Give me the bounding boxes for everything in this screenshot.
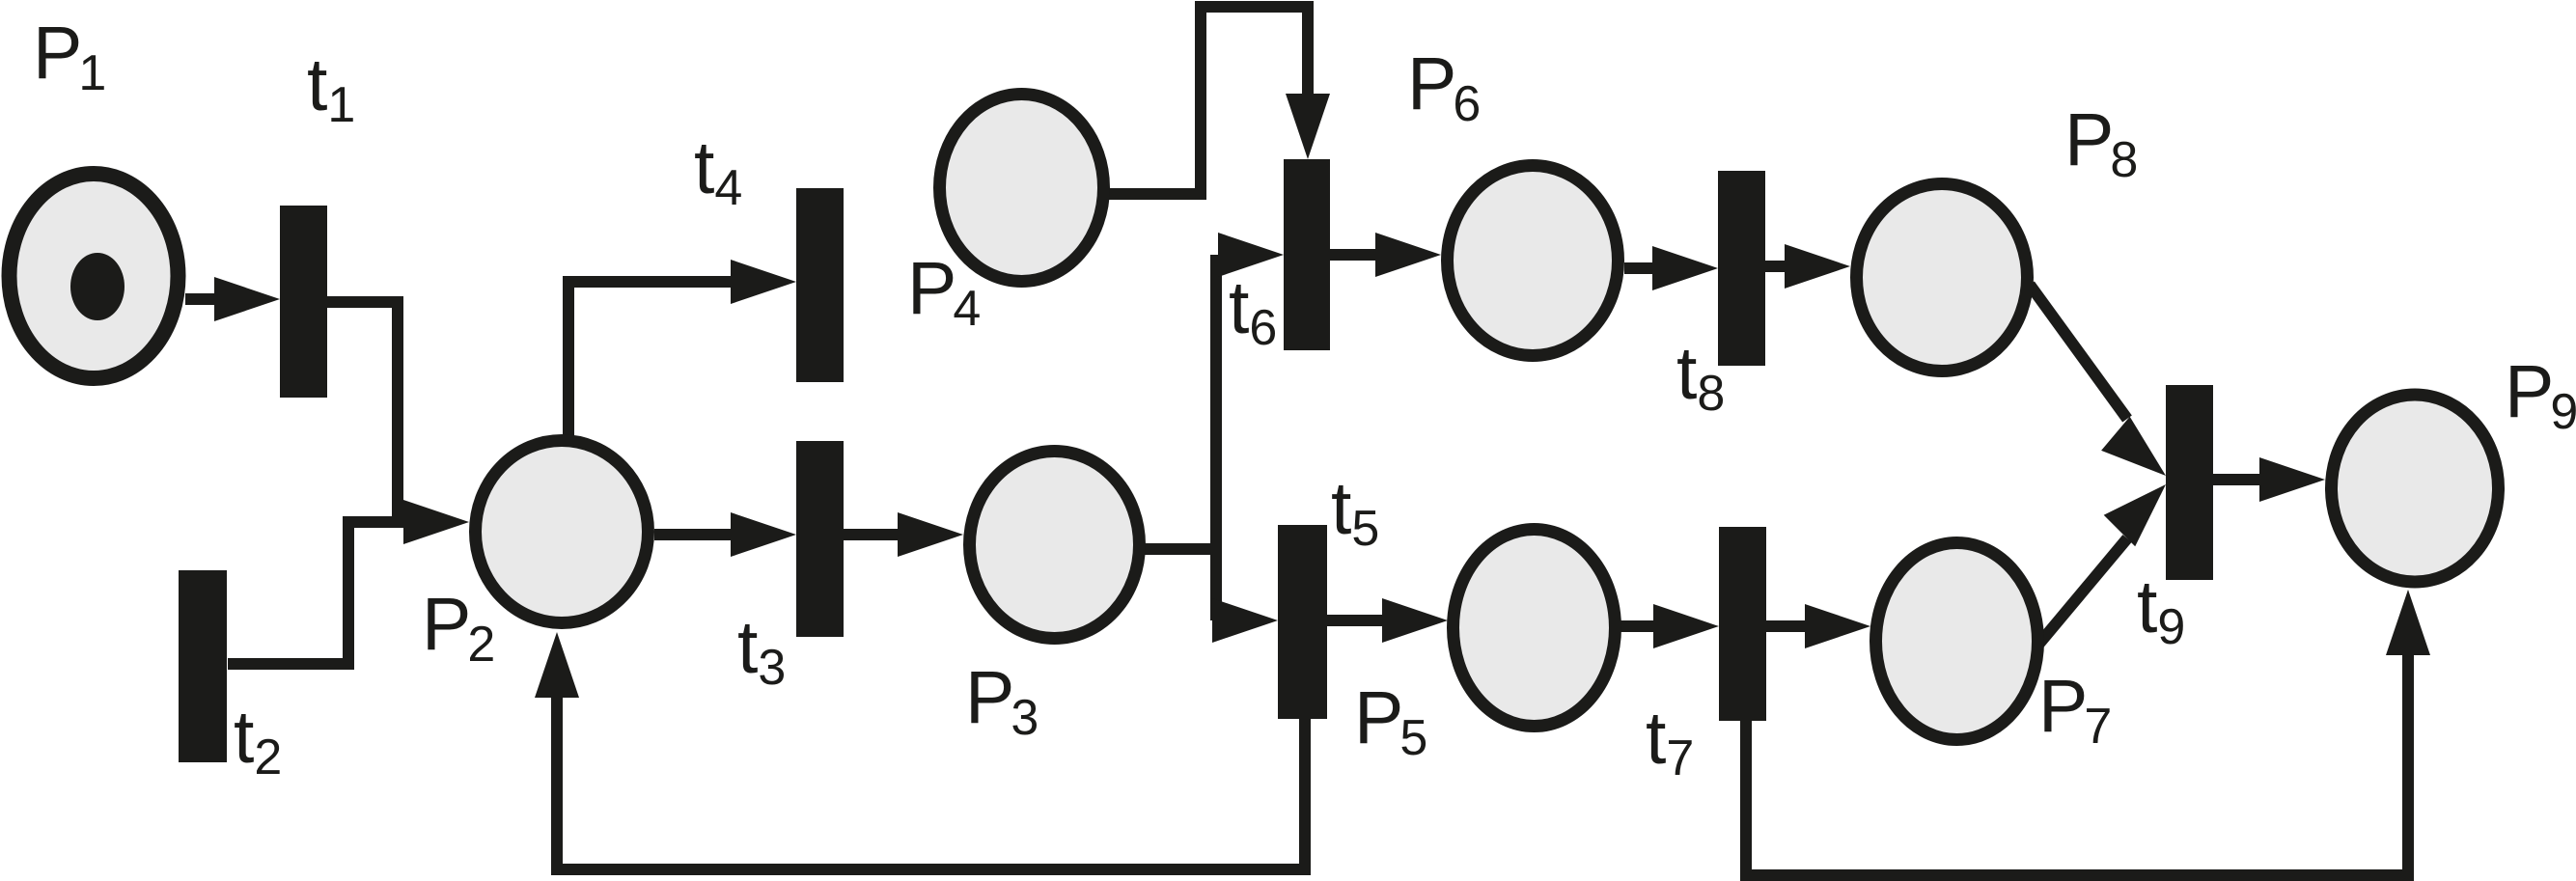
place P4 (940, 95, 1104, 282)
arrowhead into P9 bottom (2386, 590, 2430, 655)
arrowhead into t4 (731, 260, 796, 304)
token in P1 (70, 253, 125, 320)
wire t5 bottom down (1299, 715, 1311, 869)
wire P1 to t1 (185, 293, 222, 305)
wire t1 out horizontal (327, 296, 394, 308)
arrowhead into t5 left (1212, 598, 1278, 643)
place P2 (476, 441, 649, 623)
wire up into P9 bottom (2402, 651, 2414, 881)
wire down into t6 (1302, 1, 1314, 96)
transition t8 (1718, 171, 1765, 366)
arrowhead into t9 upper (2101, 417, 2166, 476)
wire P8 to t9 diagonal (2030, 285, 2127, 419)
transition t3 (796, 441, 844, 637)
wire P4 loop up (1195, 7, 1206, 200)
transition t5 (1278, 525, 1327, 719)
wire t1 down vertical (392, 296, 403, 522)
arrowhead into P9 left (2259, 457, 2325, 502)
wire P2 top vertical (563, 282, 574, 439)
wire P4 out horizontal (1105, 188, 1201, 200)
wire t8 to P8 (1765, 261, 1790, 272)
arrowhead into P2 left (403, 500, 469, 544)
wire P7 to t9 diagonal (2038, 538, 2127, 645)
arrowhead into t1 (214, 277, 280, 321)
arrowhead into P6 (1375, 233, 1441, 277)
place P8 (1857, 184, 2028, 372)
wire t7 bottom down (1740, 721, 1752, 875)
wire P2 to t4 horizontal (563, 276, 734, 288)
wire top horizontal (1195, 1, 1308, 13)
wire up into P2 bottom (551, 690, 563, 875)
wire junction vertical up (1210, 255, 1222, 555)
transition t4 (796, 188, 844, 382)
wire t6 to P6 (1330, 249, 1380, 261)
wire t2 out horizontal (228, 658, 348, 670)
transition t6 (1284, 159, 1330, 350)
wire junction vertical down (1210, 549, 1222, 620)
arrowhead into P3 (898, 512, 963, 557)
place P6 (1448, 166, 1619, 356)
place P5 (1454, 530, 1616, 727)
transition t1 (280, 206, 327, 398)
wire junction into P2 (343, 516, 410, 528)
transition t2 (179, 570, 227, 762)
arrowhead into t6 top (1286, 94, 1330, 159)
arrowhead into P7 (1805, 604, 1870, 648)
arrowhead into t7 (1653, 604, 1719, 648)
arrowhead into t6 left (1218, 233, 1284, 277)
arrowhead into t8 (1652, 246, 1718, 290)
place P1 (10, 174, 179, 378)
place P7 (1876, 543, 2038, 740)
wire P5 to t7 (1620, 620, 1657, 632)
transition t9 (2166, 385, 2213, 580)
arrowhead into P2 bottom (535, 632, 579, 698)
wire t9 to P9 (2213, 474, 2268, 485)
place P3 (970, 452, 1140, 639)
wire t5 to P5 (1327, 615, 1382, 626)
arrowhead into P5 (1382, 598, 1448, 643)
wire t2 up vertical (343, 522, 354, 670)
wire P6 to t8 (1624, 262, 1657, 274)
place P9 (2332, 395, 2499, 582)
wire t7 to P7 (1766, 620, 1810, 632)
wire bottom left horizontal (551, 864, 1311, 875)
arrowhead into P8 (1785, 244, 1850, 289)
wire P3 out (1145, 543, 1216, 555)
wire t3 to P3 (844, 529, 902, 540)
wire bottom right horizontal (1740, 869, 2414, 881)
arrowhead into t9 lower (2104, 484, 2166, 546)
wire P2 to t3 (654, 529, 734, 540)
arrowhead into t3 (731, 512, 796, 557)
transition t7 (1719, 527, 1766, 721)
